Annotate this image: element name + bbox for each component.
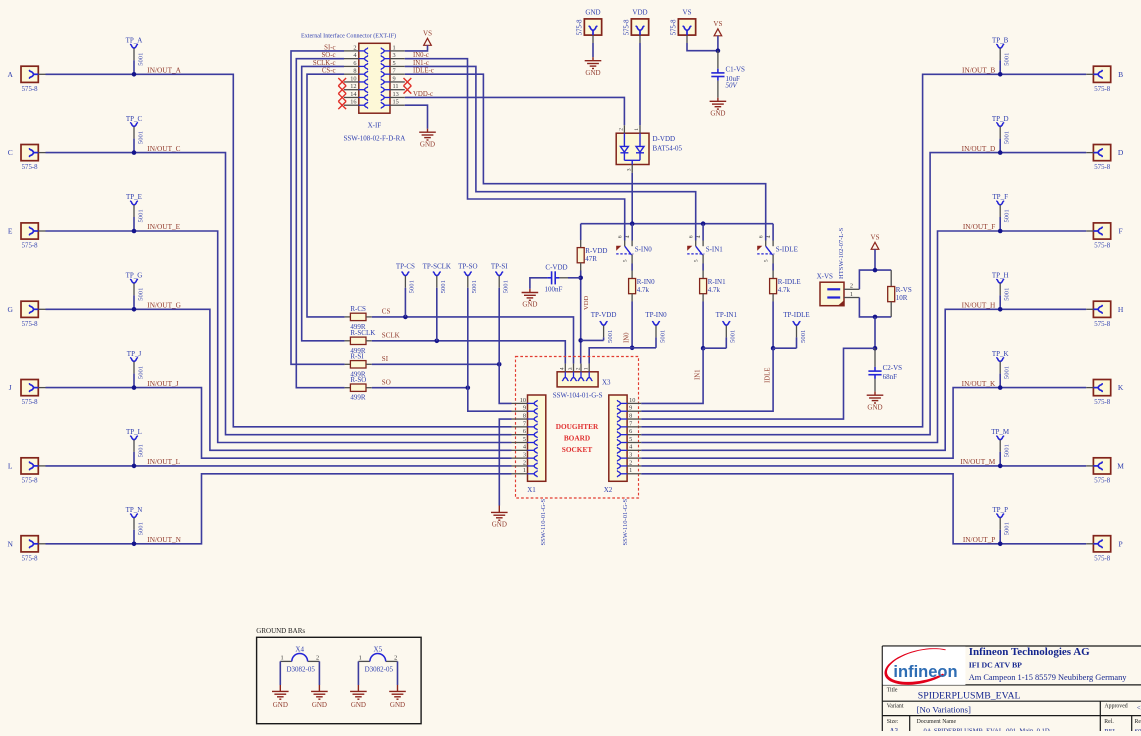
X-IF pin 4	[344, 58, 359, 60]
X-IF pin 7	[390, 73, 405, 75]
resistor R-VS 10R	[890, 270, 892, 287]
wire IN1-c	[405, 66, 696, 240]
wire S-IDLE pin4 from VDD rail	[772, 224, 774, 241]
svg-text:SI: SI	[382, 355, 389, 363]
X1 pin 2	[512, 465, 528, 467]
svg-text:13: 13	[393, 91, 399, 98]
test point TP_L	[131, 436, 138, 440]
svg-text:575-8: 575-8	[577, 19, 584, 35]
svg-text:X4: X4	[295, 646, 304, 654]
wire IN0 to X3 pin4	[589, 348, 632, 364]
wire R-IN0 to IN0 node	[631, 302, 633, 348]
svg-text:GND: GND	[390, 701, 405, 709]
svg-text:GND: GND	[522, 301, 537, 309]
wire X4 pin1 to GND	[279, 661, 281, 685]
wire CS-c	[307, 74, 345, 317]
svg-text:IN/OUT_K: IN/OUT_K	[962, 379, 996, 388]
X1 pin 7	[512, 426, 528, 428]
svg-text:499R: 499R	[350, 394, 366, 402]
svg-text:4.7k: 4.7k	[708, 286, 721, 294]
node VS rail	[873, 268, 878, 273]
connector X-IF body	[359, 43, 390, 113]
node C-VDD junction	[578, 276, 583, 281]
wire VDD rail	[581, 223, 773, 225]
svg-text:GND: GND	[585, 9, 600, 17]
svg-text:D3082-05: D3082-05	[365, 666, 394, 674]
connector VDD jack (575-8)	[631, 19, 648, 35]
svg-text:Infineon Technologies AG: Infineon Technologies AG	[969, 646, 1090, 658]
ground at X-IF pin15	[427, 129, 429, 133]
svg-text:R-IN0: R-IN0	[637, 278, 655, 286]
node VDD rail at S-IN1	[701, 221, 706, 226]
svg-text:GROUND BARs: GROUND BARs	[256, 627, 305, 635]
svg-text:GND: GND	[492, 521, 507, 529]
svg-text:Rel.: Rel.	[1104, 719, 1114, 725]
wire IN1 to X2 pin10	[641, 348, 703, 403]
connector G (575-8 jack)	[21, 301, 38, 317]
wire VDD-c	[405, 97, 625, 125]
svg-text:G: G	[7, 305, 13, 314]
svg-text:IN0: IN0	[623, 332, 630, 343]
wire SI-c	[291, 51, 345, 364]
svg-text:R-SO: R-SO	[350, 376, 366, 384]
wire IN/OUT_H	[641, 309, 1086, 450]
X-IF pin 12	[344, 89, 359, 91]
svg-text:575-8: 575-8	[22, 86, 38, 93]
wire CS net	[372, 317, 574, 364]
connector F (575-8 jack)	[1093, 223, 1110, 239]
svg-text:IN/OUT_C: IN/OUT_C	[147, 144, 180, 153]
svg-text:575-8: 575-8	[22, 243, 38, 250]
svg-text:[No Variations]: [No Variations]	[917, 704, 971, 714]
test point TP_B	[997, 45, 1004, 49]
connector L (575-8 jack)	[21, 458, 38, 474]
svg-text:7: 7	[523, 420, 526, 427]
svg-text:575-8: 575-8	[1094, 164, 1110, 171]
wire X4 pin2 to GND	[318, 661, 320, 685]
wire VS node down to C2-VS	[874, 317, 876, 348]
svg-text:3: 3	[393, 52, 396, 59]
svg-text:9: 9	[629, 405, 632, 412]
connector X1 body	[528, 395, 546, 481]
test point TP-IN0	[653, 322, 660, 326]
node VDD rail at S-IN0	[630, 221, 635, 226]
svg-text:IN/OUT_H: IN/OUT_H	[962, 301, 996, 310]
X2 pin 10	[627, 402, 641, 404]
svg-text:X-VS: X-VS	[817, 273, 833, 281]
svg-text:575-8: 575-8	[1094, 399, 1110, 406]
wire R-IN1 to IN1 node	[702, 302, 704, 349]
resistor R-IDLE 4.7k	[770, 279, 777, 294]
svg-text:TP-CS: TP-CS	[396, 263, 415, 271]
test point TP_F	[997, 201, 1004, 205]
Infineon logo	[883, 647, 966, 685]
svg-text:5001: 5001	[471, 280, 478, 293]
svg-text:5: 5	[694, 259, 700, 262]
svg-text:10: 10	[520, 397, 526, 404]
svg-text:5001: 5001	[607, 330, 614, 343]
svg-text:C1-VS: C1-VS	[726, 66, 746, 74]
svg-text:J: J	[9, 383, 12, 392]
wire VDD jack to D-VDD pin1	[639, 43, 641, 125]
svg-text:8: 8	[353, 68, 356, 75]
wire S-IN0 pin5 to R-IN0	[631, 264, 633, 271]
svg-text:3: 3	[568, 367, 574, 370]
svg-text:14: 14	[350, 91, 357, 98]
wire IN0 to TP-IN0	[632, 347, 656, 349]
svg-text:IN/OUT_A: IN/OUT_A	[147, 66, 181, 75]
wire X5 pin1 to GND	[357, 661, 359, 685]
svg-text:D: D	[1118, 148, 1124, 157]
node C2-VS top	[873, 315, 878, 320]
svg-text:5001: 5001	[1004, 522, 1011, 535]
svg-text:External Interface Connector (: External Interface Connector (EXT-IF)	[301, 33, 396, 40]
X-IF pin 10	[344, 81, 359, 83]
svg-text:6: 6	[523, 428, 526, 435]
svg-text:Size:: Size:	[887, 719, 899, 725]
svg-text:5001: 5001	[137, 366, 144, 379]
X1 pin 5	[512, 442, 528, 444]
connector GND jack (575-8)	[584, 19, 601, 35]
svg-text:A3: A3	[890, 727, 899, 731]
svg-text:SPIDERPLUSMB_EVAL: SPIDERPLUSMB_EVAL	[918, 691, 1021, 702]
svg-text:3: 3	[523, 452, 526, 459]
svg-text:1: 1	[850, 291, 853, 298]
wire IN/OUT_A	[46, 74, 512, 427]
svg-text:575-8: 575-8	[624, 19, 631, 35]
svg-text:TP_D: TP_D	[992, 115, 1009, 123]
svg-text:L: L	[8, 462, 13, 471]
svg-text:6: 6	[689, 235, 695, 238]
svg-text:Re: Re	[1135, 719, 1141, 725]
svg-text:7: 7	[393, 68, 396, 75]
svg-text:9: 9	[393, 75, 396, 82]
capacitor C1-VS 10uF 50V	[717, 51, 719, 69]
svg-text:575-8: 575-8	[1094, 243, 1110, 250]
svg-text:2: 2	[523, 459, 526, 466]
X2 pin 5	[627, 442, 641, 444]
wire IN1 to TP-IN1	[703, 347, 726, 349]
svg-text:5: 5	[764, 259, 770, 262]
svg-text:Am Campeon 1-15 85579 Neubiber: Am Campeon 1-15 85579 Neubiberg Germany	[969, 673, 1128, 682]
wire R-IDLE to IDLE node	[772, 302, 774, 349]
X-IF pin 16	[344, 104, 359, 106]
svg-text:TP-SCLK: TP-SCLK	[423, 263, 451, 271]
svg-text:TP-IN0: TP-IN0	[645, 311, 667, 319]
wire S-IN0 pin4 from VDD rail	[631, 224, 633, 241]
wire SO to X1 pin9	[468, 388, 512, 412]
title block	[882, 646, 1141, 731]
X1 pin 9	[512, 410, 528, 412]
connector K (575-8 jack)	[1093, 380, 1110, 396]
wire X-IF pin1 to VS	[405, 45, 428, 51]
svg-text:12: 12	[350, 83, 356, 90]
wire D-VDD pin3 to VDD rail	[631, 173, 633, 224]
wire IN/OUT_J	[46, 388, 512, 459]
test point TP_N	[131, 514, 138, 518]
wire VS symbol to node	[717, 36, 719, 51]
svg-text:68nF: 68nF	[883, 373, 898, 381]
X-IF pin 5	[390, 65, 405, 67]
wire IN/OUT_B	[641, 74, 1086, 427]
svg-text:VS: VS	[713, 20, 722, 28]
svg-text:TP_P: TP_P	[992, 506, 1008, 514]
X1 pin 8	[512, 418, 528, 420]
svg-text:5001: 5001	[1004, 53, 1011, 66]
wire IN/OUT_K	[641, 388, 1086, 459]
svg-text:TP_N: TP_N	[126, 506, 143, 514]
svg-text:575-8: 575-8	[671, 19, 678, 35]
svg-text:BOARD: BOARD	[564, 433, 590, 442]
test point TP_E	[131, 201, 138, 205]
svg-text:D-VDD: D-VDD	[653, 135, 676, 143]
svg-text:10R: 10R	[896, 294, 908, 302]
svg-text:X3: X3	[602, 378, 611, 386]
svg-text:2: 2	[316, 655, 319, 662]
svg-text:5001: 5001	[409, 280, 416, 293]
ground at X4 pin1	[272, 691, 289, 699]
test point TP_K	[997, 358, 1004, 362]
svg-text:TP-VDD: TP-VDD	[591, 311, 617, 319]
node X2 pin8 VS junction	[873, 346, 878, 351]
svg-text:DOUGHTER: DOUGHTER	[556, 422, 599, 431]
X2 pin 2	[627, 465, 641, 467]
ground at X1 pin8	[491, 512, 508, 520]
svg-text:Approved: Approved	[1105, 704, 1128, 710]
svg-text:TP-SI: TP-SI	[491, 263, 508, 271]
svg-text:C: C	[8, 148, 13, 157]
wire GND jack to ground	[592, 43, 594, 57]
wire VS to X2 pin8	[641, 348, 875, 419]
power symbol VS at X-IF pin1	[424, 38, 432, 45]
svg-text:SSW-110-01-G-S: SSW-110-01-G-S	[540, 499, 547, 546]
svg-text:X5: X5	[374, 646, 383, 654]
svg-text:IN/OUT_P: IN/OUT_P	[963, 535, 995, 544]
X1 pin 6	[512, 434, 528, 436]
svg-text:TP_C: TP_C	[126, 115, 143, 123]
svg-text:TP_M: TP_M	[991, 428, 1010, 436]
X2 pin 1	[627, 473, 641, 475]
svg-text:IN/OUT_L: IN/OUT_L	[147, 457, 180, 466]
svg-text:8: 8	[629, 412, 632, 419]
svg-text:CS: CS	[382, 308, 391, 316]
svg-text:VS: VS	[871, 234, 880, 242]
svg-text:5001: 5001	[800, 330, 807, 343]
test point TP_H	[997, 280, 1004, 284]
svg-text:6: 6	[759, 235, 765, 238]
svg-text:1: 1	[281, 655, 284, 662]
node TP-VDD junction	[578, 338, 583, 343]
svg-text:1: 1	[393, 44, 396, 51]
svg-text:575-8: 575-8	[1094, 478, 1110, 485]
svg-text:R-VS: R-VS	[896, 286, 912, 294]
svg-text:9: 9	[523, 405, 526, 412]
wire VS symbol to rail	[874, 249, 876, 270]
svg-text:575-8: 575-8	[22, 478, 38, 485]
capacitor C2-VS 68nF	[874, 348, 876, 367]
X-IF pin 9	[390, 81, 405, 83]
test point TP_G	[131, 280, 138, 284]
wire S-IN1 pin4 from VDD rail	[702, 224, 704, 241]
switch S-IDLE	[757, 246, 762, 251]
svg-text:2: 2	[629, 459, 632, 466]
ground at C1-VS	[710, 101, 727, 109]
ground at X5 pin2	[389, 691, 406, 699]
GROUND BARs box	[257, 637, 422, 723]
connector M (575-8 jack)	[1093, 458, 1110, 474]
svg-text:575-8: 575-8	[1094, 321, 1110, 328]
svg-text:6: 6	[618, 235, 624, 238]
svg-text:2: 2	[394, 655, 397, 662]
svg-text:R-VDD: R-VDD	[585, 247, 607, 255]
switch S-IN0	[616, 246, 621, 251]
test point TP_J	[131, 358, 138, 362]
svg-text:M: M	[1117, 462, 1124, 471]
svg-text:TP_J: TP_J	[127, 350, 142, 358]
connector A (575-8 jack)	[21, 66, 38, 82]
X-IF pin 15	[390, 104, 405, 106]
wire X-IF pin15 to GND	[405, 105, 428, 128]
svg-text:X1: X1	[527, 486, 536, 494]
wire SCLK-c	[302, 66, 345, 340]
svg-text:4.7k: 4.7k	[637, 286, 650, 294]
connector P (575-8 jack)	[1093, 536, 1110, 552]
wire TP-VDD to VDD net	[581, 339, 604, 341]
svg-text:5: 5	[623, 259, 629, 262]
connector J (575-8 jack)	[21, 380, 38, 396]
svg-text:575-8: 575-8	[1094, 86, 1110, 93]
svg-text:2: 2	[575, 367, 581, 370]
svg-text:5: 5	[393, 60, 396, 67]
svg-text:S-IDLE: S-IDLE	[776, 246, 798, 254]
svg-text:575-8: 575-8	[22, 555, 38, 562]
X-IF pin 6	[344, 65, 359, 67]
X-IF pin 8	[344, 73, 359, 75]
wire IN/OUT_P	[641, 474, 1086, 544]
svg-text:4: 4	[696, 235, 702, 238]
svg-text:5001: 5001	[137, 131, 144, 144]
switch S-IN1	[687, 246, 692, 251]
svg-text:E: E	[8, 227, 13, 236]
svg-text:6: 6	[353, 60, 356, 67]
svg-text:SO: SO	[382, 379, 391, 387]
svg-text:A: A	[7, 70, 13, 79]
svg-text:10: 10	[629, 397, 635, 404]
wire IN/OUT_L	[46, 465, 512, 467]
svg-text:575-8: 575-8	[22, 164, 38, 171]
svg-text:GND: GND	[867, 403, 882, 411]
svg-text:GND: GND	[420, 140, 435, 148]
connector E (575-8 jack)	[21, 223, 38, 239]
svg-text:C-VDD: C-VDD	[545, 263, 567, 271]
wire IN/OUT_F	[641, 231, 1086, 443]
svg-text:1: 1	[359, 655, 362, 662]
X1 pin 4	[512, 449, 528, 451]
test point TP-IDLE	[793, 322, 800, 326]
svg-text:IN/OUT_J: IN/OUT_J	[147, 379, 178, 388]
svg-text:IN/OUT_B: IN/OUT_B	[962, 66, 995, 75]
svg-text:F: F	[1119, 227, 1123, 236]
wire IN/OUT_C	[46, 153, 512, 435]
svg-text:infineon: infineon	[893, 663, 957, 681]
svg-text:100nF: 100nF	[545, 286, 563, 294]
svg-text:C2-VS: C2-VS	[883, 364, 903, 372]
connector X3 body	[557, 372, 598, 387]
svg-text:2: 2	[850, 282, 853, 289]
X2 pin 3	[627, 457, 641, 459]
svg-text:P: P	[1119, 539, 1123, 548]
test point TP_C	[131, 123, 138, 127]
wire VS jack to C1-VS node	[687, 43, 718, 51]
svg-text:5001: 5001	[1004, 209, 1011, 222]
svg-text:8: 8	[523, 412, 526, 419]
svg-text:VDD: VDD	[583, 295, 590, 310]
svg-text:HTSW-102-07-L-S: HTSW-102-07-L-S	[838, 227, 845, 279]
svg-text:GND: GND	[312, 701, 327, 709]
svg-text:1: 1	[584, 367, 590, 370]
X2 pin 7	[627, 426, 641, 428]
svg-text:R-SCLK: R-SCLK	[350, 329, 375, 337]
X2 pin 9	[627, 410, 641, 412]
svg-text:IFI DC ATV BP: IFI DC ATV BP	[969, 660, 1022, 669]
node TP-SI	[497, 362, 502, 367]
test point TP-VDD	[600, 322, 607, 326]
svg-text:TP-IN1: TP-IN1	[716, 311, 738, 319]
svg-text:IN/OUT_E: IN/OUT_E	[147, 222, 180, 231]
svg-text:IN/OUT_N: IN/OUT_N	[147, 535, 181, 544]
connector D (575-8 jack)	[1093, 145, 1110, 161]
X3 pin 3	[573, 364, 575, 372]
svg-text:Title: Title	[887, 688, 898, 694]
X2 pin 8	[627, 418, 641, 420]
wire IN/OUT_D	[641, 153, 1086, 435]
svg-text:VS: VS	[683, 9, 692, 17]
svg-text:7: 7	[629, 420, 632, 427]
svg-text:4.7k: 4.7k	[778, 286, 791, 294]
X3 pin 1	[588, 364, 590, 372]
wire IDLE to TP-IDLE	[773, 347, 796, 349]
svg-text:GND: GND	[351, 701, 366, 709]
svg-text:5001: 5001	[137, 444, 144, 457]
svg-text:TP_H: TP_H	[992, 272, 1009, 280]
test point TP-SI	[496, 272, 503, 276]
svg-text:X2: X2	[604, 486, 613, 494]
svg-text:TP-SO: TP-SO	[458, 263, 477, 271]
node VS / C1-VS junction	[716, 48, 721, 53]
X2 pin 6	[627, 434, 641, 436]
wire SO-c	[296, 59, 344, 388]
wire IN/OUT_E	[46, 231, 512, 443]
svg-text:47R: 47R	[585, 255, 597, 263]
wire SCLK net	[372, 341, 566, 364]
ground at X4 pin2	[311, 691, 328, 699]
power symbol VS at C1-VS	[714, 29, 722, 36]
resistor R-IN1 4.7k	[700, 279, 707, 294]
svg-text:2: 2	[619, 128, 625, 131]
svg-text:BAT54-05: BAT54-05	[653, 145, 683, 153]
test point TP_P	[997, 514, 1004, 518]
connector X2 body	[609, 395, 627, 481]
resistor R-SI 499R	[345, 363, 351, 365]
test point TP_M	[997, 436, 1004, 440]
node TP-SO	[466, 385, 471, 390]
power symbol VS at X-VS	[871, 242, 879, 249]
svg-text:SOCKET: SOCKET	[562, 445, 593, 454]
svg-text:VS: VS	[423, 30, 432, 38]
svg-text:TP_E: TP_E	[126, 193, 142, 201]
svg-text:50V: 50V	[726, 81, 738, 89]
X3 pin 4	[564, 364, 566, 372]
